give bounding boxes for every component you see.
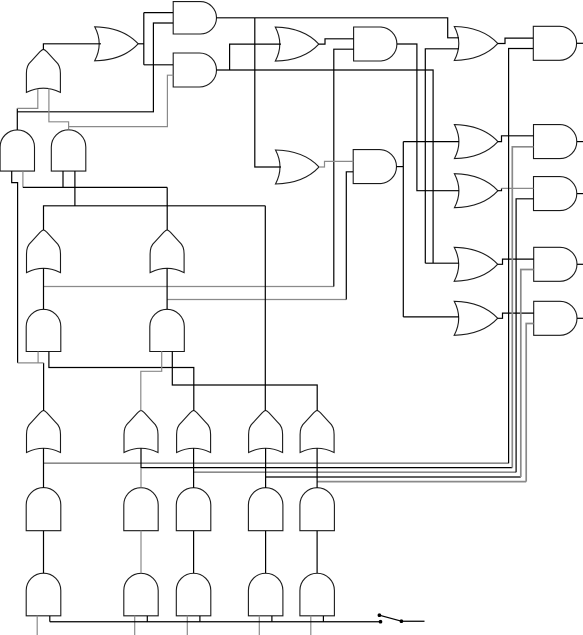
wire: column 4 middle AND to bottom AND link	[265, 531, 267, 574]
wire: U9 bottom input from long riser x=425.3	[425, 49, 459, 263]
wire: riser to U6 top input pin	[144, 64, 173, 66]
wire: feedback bus line 5 horizontal from column 5	[317, 481, 526, 483]
wire: column 3 middle AND to bottom AND link	[193, 531, 195, 574]
wire: U3 output up and jog to U1 right input pin	[49, 89, 69, 130]
and-gate U30 (middle AND, column 1)	[26, 488, 61, 531]
wire: U16 top input feed (gray)	[502, 187, 534, 189]
wire: column 5 bottom AND left input stub	[310, 616, 312, 635]
wire: jog to U1 left input pin	[17, 89, 38, 108]
and-gate U39 (bottom AND, column 5)	[300, 573, 335, 616]
wire: U21 to U23 column link	[43, 269, 45, 310]
and-gate U12 (AND right-pointing, row 2 mid)	[353, 150, 396, 184]
and-gate U35 (bottom AND, column 1)	[26, 573, 61, 616]
wire: column 4 OR to middle AND link	[265, 449, 267, 488]
wire: riser to U5 top input pin	[144, 12, 173, 14]
wire: row-4 OR U17 input line	[425, 262, 459, 264]
and-gate U32 (middle AND, column 3)	[176, 488, 211, 531]
wire: bottom OR col1 output up	[43, 363, 45, 411]
wire: column 1 bottom AND right input to bottom bus	[49, 616, 51, 622]
wire: U24 right pin down to L3	[172, 351, 317, 410]
wire: column 2 bottom AND right input to bottom bus	[146, 616, 148, 622]
wire: column 3 bottom AND left input stub	[186, 616, 188, 635]
wire: U11 output jog to U12 top input	[319, 161, 353, 167]
and-gate U10 (AND right-pointing, top right output)	[533, 26, 576, 60]
wire: column 2 middle AND to bottom AND link	[140, 531, 142, 574]
wire: line A riser up to U8 bottom input	[334, 49, 354, 286]
wire: U2 output up	[16, 108, 18, 129]
and-gate U3 (vertical AND, upper-left 2nd)	[51, 130, 86, 171]
and-gate U31 (middle AND, column 2)	[124, 488, 158, 531]
wire: U3 right input pin drop to L2	[74, 171, 76, 206]
wire: column 4 bottom AND right input to bottom bus	[271, 616, 273, 622]
junction dot: switch left terminal	[379, 620, 383, 624]
or-gate U27 (bottom section OR, column 3)	[177, 411, 211, 453]
wire: U10 output stub to right edge	[577, 42, 583, 44]
wire: bottom input bus	[50, 621, 381, 623]
wire: feedback bus line 4 horizontal from column 4	[266, 476, 521, 478]
wire: column 4 bottom AND left input stub	[258, 616, 260, 635]
wire: feedback bus line 1 horizontal from column 1	[44, 462, 509, 464]
wire: U16 output stub to right edge	[577, 193, 583, 195]
wire: U19 output jog to U20 top input	[498, 313, 534, 318]
wire: riser x=143.8 between U5 and U6 top pins	[143, 13, 145, 65]
wire: riser top to U13 input	[403, 141, 459, 143]
wire: feedback bus line 1 riser to right AND input pin	[509, 49, 534, 464]
wire: column 3 OR to middle AND link	[193, 449, 195, 488]
wire: switch right lead	[401, 620, 424, 622]
wire: line L1 to riser	[23, 186, 167, 188]
and-gate U24 (vertical AND, mid col 2)	[150, 309, 185, 351]
or-gate U25 (bottom section OR, column 1)	[27, 411, 61, 453]
wire: U8 output riser down to row-3 OR input	[397, 44, 459, 191]
wire: feedback bus line 2 riser to right AND input pin	[512, 147, 533, 468]
wire: U23 right pin to H2 to bottom OR col3 output	[49, 352, 194, 411]
wire: U5 output across top to U9 top input	[217, 18, 460, 38]
and-gate U38 (bottom AND, column 4)	[248, 573, 283, 616]
wire: U17 output jog to U18 top input	[498, 259, 534, 264]
wire: column 5 OR to middle AND link	[316, 449, 318, 488]
wire: line A from U21/U23 column (gray horizontal)	[44, 286, 334, 288]
wire: V2 riser from L2 down to bottom OR column 4	[264, 206, 266, 411]
wire: U21 output up to line L2	[44, 206, 266, 230]
or-gate U1 (vertical OR, top-left column)	[26, 49, 60, 92]
wire: U22 to U24 column link	[166, 269, 168, 310]
or-gate U29 (bottom section OR, column 5)	[300, 411, 334, 453]
wire: U18 output stub to right edge	[577, 263, 583, 265]
wire: U2 left input pin riser down to OR row join	[12, 171, 18, 363]
and-gate U8 (AND right-pointing, top middle)	[354, 27, 397, 61]
junction dot: switch right terminal	[400, 619, 404, 623]
or-gate U26 (bottom section OR, column 2)	[124, 411, 158, 453]
and-gate U36 (bottom AND, column 2)	[124, 573, 158, 615]
and-gate U20 (right column AND, row 5)	[534, 301, 577, 335]
or-gate U28 (bottom section OR, column 4)	[249, 411, 283, 453]
and-gate U16 (right column AND, row 3)	[534, 177, 577, 211]
wire: column 1 middle AND to bottom AND link	[43, 531, 45, 574]
wire: U20 output stub to right edge	[577, 317, 583, 319]
wire: U23 left pin stub	[37, 352, 39, 363]
wire: U3 left input pin drop to L1	[62, 171, 64, 187]
wire: U1 output to U4 input	[43, 44, 101, 50]
wire: U15 output jog step	[498, 188, 502, 190]
or-gate U7 (OR right-pointing, top middle)	[275, 27, 319, 61]
or-gate U4 (OR right-pointing, top)	[95, 27, 139, 61]
switch S1 blade (open)	[379, 615, 401, 621]
wire: column 2 OR output to bus tap	[140, 449, 142, 469]
wire: feedback bus line 2 horizontal from column 2	[141, 467, 512, 469]
wire: riser bottom to U19 input	[403, 316, 459, 318]
wire: feedback bus line 5 riser to right AND input pin	[526, 324, 534, 482]
or-gate U22 (vertical OR, mid col 2)	[150, 230, 184, 273]
or-gate U17 (right column OR, row 4)	[454, 247, 498, 281]
and-gate U18 (right column AND, row 4)	[534, 247, 577, 281]
or-gate U9 (OR right-pointing, top right)	[454, 27, 498, 61]
wire: column 2 bus tap to middle AND	[140, 468, 142, 488]
or-gate U19 (right column OR, row 5)	[454, 301, 498, 335]
wire: column 3 bottom AND right input to bottom bus	[199, 616, 201, 622]
wire: riser x=403.3 vertical	[402, 142, 404, 317]
and-gate U33 (middle AND, column 4)	[248, 488, 283, 531]
wire: U5 output branch down to U11 input	[255, 18, 281, 167]
wire: U2 output long line to U5 bottom input	[17, 23, 173, 112]
wire: U9 output jog to U10 top input	[498, 38, 534, 43]
wire: column 5 bottom AND right input to bottom bus	[322, 616, 324, 622]
wire: U7 output jog to U8 top input	[319, 39, 354, 44]
wire: feedback bus line 3 riser to right AND input pin	[516, 199, 533, 472]
and-gate U14 (right column AND, row 2)	[534, 125, 577, 159]
wire: U12 output riser feeding row-2 and row-5 OR inputs	[397, 166, 404, 168]
and-gate U5 (AND right-pointing, top row upper)	[173, 2, 216, 34]
wire: column 5 middle AND to bottom AND link	[316, 531, 318, 574]
and-gate U6 (AND right-pointing, top row lower)	[173, 53, 216, 87]
or-gate U13 (right column OR, row 2)	[454, 125, 498, 159]
and-gate U37 (bottom AND, column 3)	[176, 573, 211, 616]
or-gate U11 (OR right-pointing, row 2 mid)	[276, 150, 320, 184]
wire: line B riser up to U12 bottom input	[346, 172, 353, 300]
wire: U3 output branch to U6 bottom input	[69, 75, 174, 126]
wire: jog at y=362.9 to far-left riser (gray)	[18, 362, 44, 364]
wire: feedback bus line 3 horizontal from column 3	[194, 471, 516, 473]
and-gate U34 (middle AND, column 5)	[300, 488, 335, 531]
or-gate U15 (right column OR, row 3)	[454, 174, 498, 208]
wire: riser x=167.2 from L1 down to U22 output	[166, 187, 168, 230]
or-gate U21 (vertical OR, mid-left col 1)	[27, 230, 61, 273]
wire: feedback bus line 4 riser to right AND input pin	[521, 270, 534, 478]
wire: U2 right input pin stub (gray)	[22, 171, 24, 187]
wire: U14 output stub to right edge	[577, 141, 583, 143]
wire: column 1 OR to middle AND link	[43, 449, 45, 488]
wire: U6 output branch up to U7 input	[230, 44, 281, 70]
wire: line B from U22/U24 column (gray horizontal)	[167, 299, 346, 301]
wire: U13 output jog to U14 top input	[498, 136, 534, 142]
and-gate U2 (vertical AND, upper-left)	[0, 130, 34, 171]
junction dot: switch blade pivot	[378, 613, 382, 617]
and-gate U23 (vertical AND, mid-left col 1)	[26, 309, 61, 351]
wire: U4 output riser to U5/U6 top inputs	[138, 43, 144, 45]
wire: bottom OR col2 output up jog to U24 left pin	[141, 351, 162, 410]
wire: column 1 bottom AND left input stub	[36, 616, 38, 635]
wire: column 2 bottom AND left input stub	[134, 616, 136, 635]
wire: U6 output long line to row-4 OR riser	[217, 70, 434, 263]
